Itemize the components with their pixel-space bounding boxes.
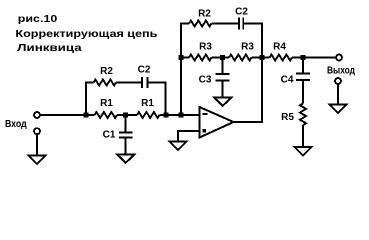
svg-text:R3: R3 bbox=[199, 42, 212, 53]
ground (op-amp plus) bbox=[170, 142, 187, 150]
capacitor C2 (stage2) bbox=[239, 18, 243, 30]
svg-text:Линквица: Линквица bbox=[17, 43, 82, 54]
op-amp plus pin mark bbox=[203, 129, 206, 132]
wire main line segment 1 bbox=[40, 114, 95, 116]
wire R3 row right bbox=[252, 57, 270, 59]
ground (C3) bbox=[214, 98, 231, 106]
wire stage1 branch middle bbox=[116, 82, 141, 84]
svg-text:Выход: Выход bbox=[327, 66, 356, 77]
capacitor C1 bbox=[119, 115, 132, 155]
svg-text:Вход: Вход bbox=[5, 119, 27, 130]
capacitor C2 (stage1) bbox=[142, 77, 148, 88]
resistor R5 bbox=[300, 104, 306, 126]
ground (input) bbox=[29, 156, 46, 164]
wire stage2 left vertical bbox=[181, 24, 189, 116]
svg-text:Корректирующая цепь: Корректирующая цепь bbox=[15, 29, 157, 40]
node C1 junction bbox=[123, 113, 128, 118]
svg-text:C4: C4 bbox=[281, 75, 294, 86]
resistor R3 (second) bbox=[229, 55, 252, 61]
wire stage2 branch right + right vertical bbox=[244, 24, 262, 58]
capacitor C4 bbox=[296, 58, 310, 104]
svg-text:рис.10: рис.10 bbox=[18, 14, 58, 25]
node stage1 right junction bbox=[164, 113, 169, 118]
node feedback junction bbox=[260, 55, 265, 60]
svg-text:R2: R2 bbox=[100, 66, 113, 77]
resistor R1 (first) bbox=[95, 112, 118, 118]
svg-text:C3: C3 bbox=[199, 75, 212, 86]
ground (R5) bbox=[295, 147, 312, 155]
resistor R4 bbox=[270, 55, 293, 61]
output ground terminal circle bbox=[335, 78, 341, 84]
resistor R2 (stage1) bbox=[94, 80, 117, 86]
wire input ground bbox=[36, 134, 38, 155]
ground (output) bbox=[330, 105, 347, 113]
svg-text:C2: C2 bbox=[138, 65, 151, 76]
ground (C1) bbox=[117, 155, 134, 163]
op-amp minus pin mark bbox=[203, 113, 208, 115]
wire op-amp output / feedback bbox=[234, 58, 263, 123]
wire stage2 branch middle bbox=[212, 23, 239, 25]
wire main line segment 2 bbox=[117, 114, 137, 116]
wire stage1 branch right + right vertical bbox=[149, 83, 166, 116]
wire main line segment 3 bbox=[160, 114, 199, 116]
resistor R1 (second) bbox=[137, 112, 160, 118]
wire stage1 left vertical bbox=[86, 83, 94, 116]
node stage2 left junction bbox=[179, 113, 184, 118]
op-amp U1 bbox=[200, 107, 234, 138]
input terminal (Вход) bbox=[34, 112, 40, 118]
wire R3 row left bbox=[181, 57, 189, 59]
svg-text:R3: R3 bbox=[241, 42, 254, 53]
node C4 junction bbox=[301, 55, 306, 60]
resistor R2 (stage2) bbox=[189, 21, 212, 27]
wire R4 to output terminal bbox=[292, 57, 336, 59]
svg-text:R5: R5 bbox=[281, 112, 294, 123]
svg-text:C2: C2 bbox=[235, 6, 248, 17]
capacitor C3 bbox=[216, 58, 230, 98]
input ground terminal circle bbox=[34, 128, 40, 134]
svg-text:C1: C1 bbox=[103, 130, 116, 141]
node stage1 left junction bbox=[84, 113, 89, 118]
svg-text:R1: R1 bbox=[100, 98, 113, 109]
svg-text:R4: R4 bbox=[273, 42, 286, 53]
output terminal (Выход) bbox=[336, 55, 342, 61]
svg-text:R1: R1 bbox=[141, 98, 154, 109]
svg-text:R2: R2 bbox=[198, 8, 211, 19]
wire output ground bbox=[337, 84, 339, 105]
node C3 junction bbox=[220, 55, 225, 60]
wire R3 row middle bbox=[212, 57, 230, 59]
node R3 row left junction bbox=[179, 55, 184, 60]
wire op-amp plus input bbox=[178, 131, 200, 142]
wire R5 to ground bbox=[302, 125, 304, 147]
resistor R3 (first) bbox=[189, 55, 212, 61]
